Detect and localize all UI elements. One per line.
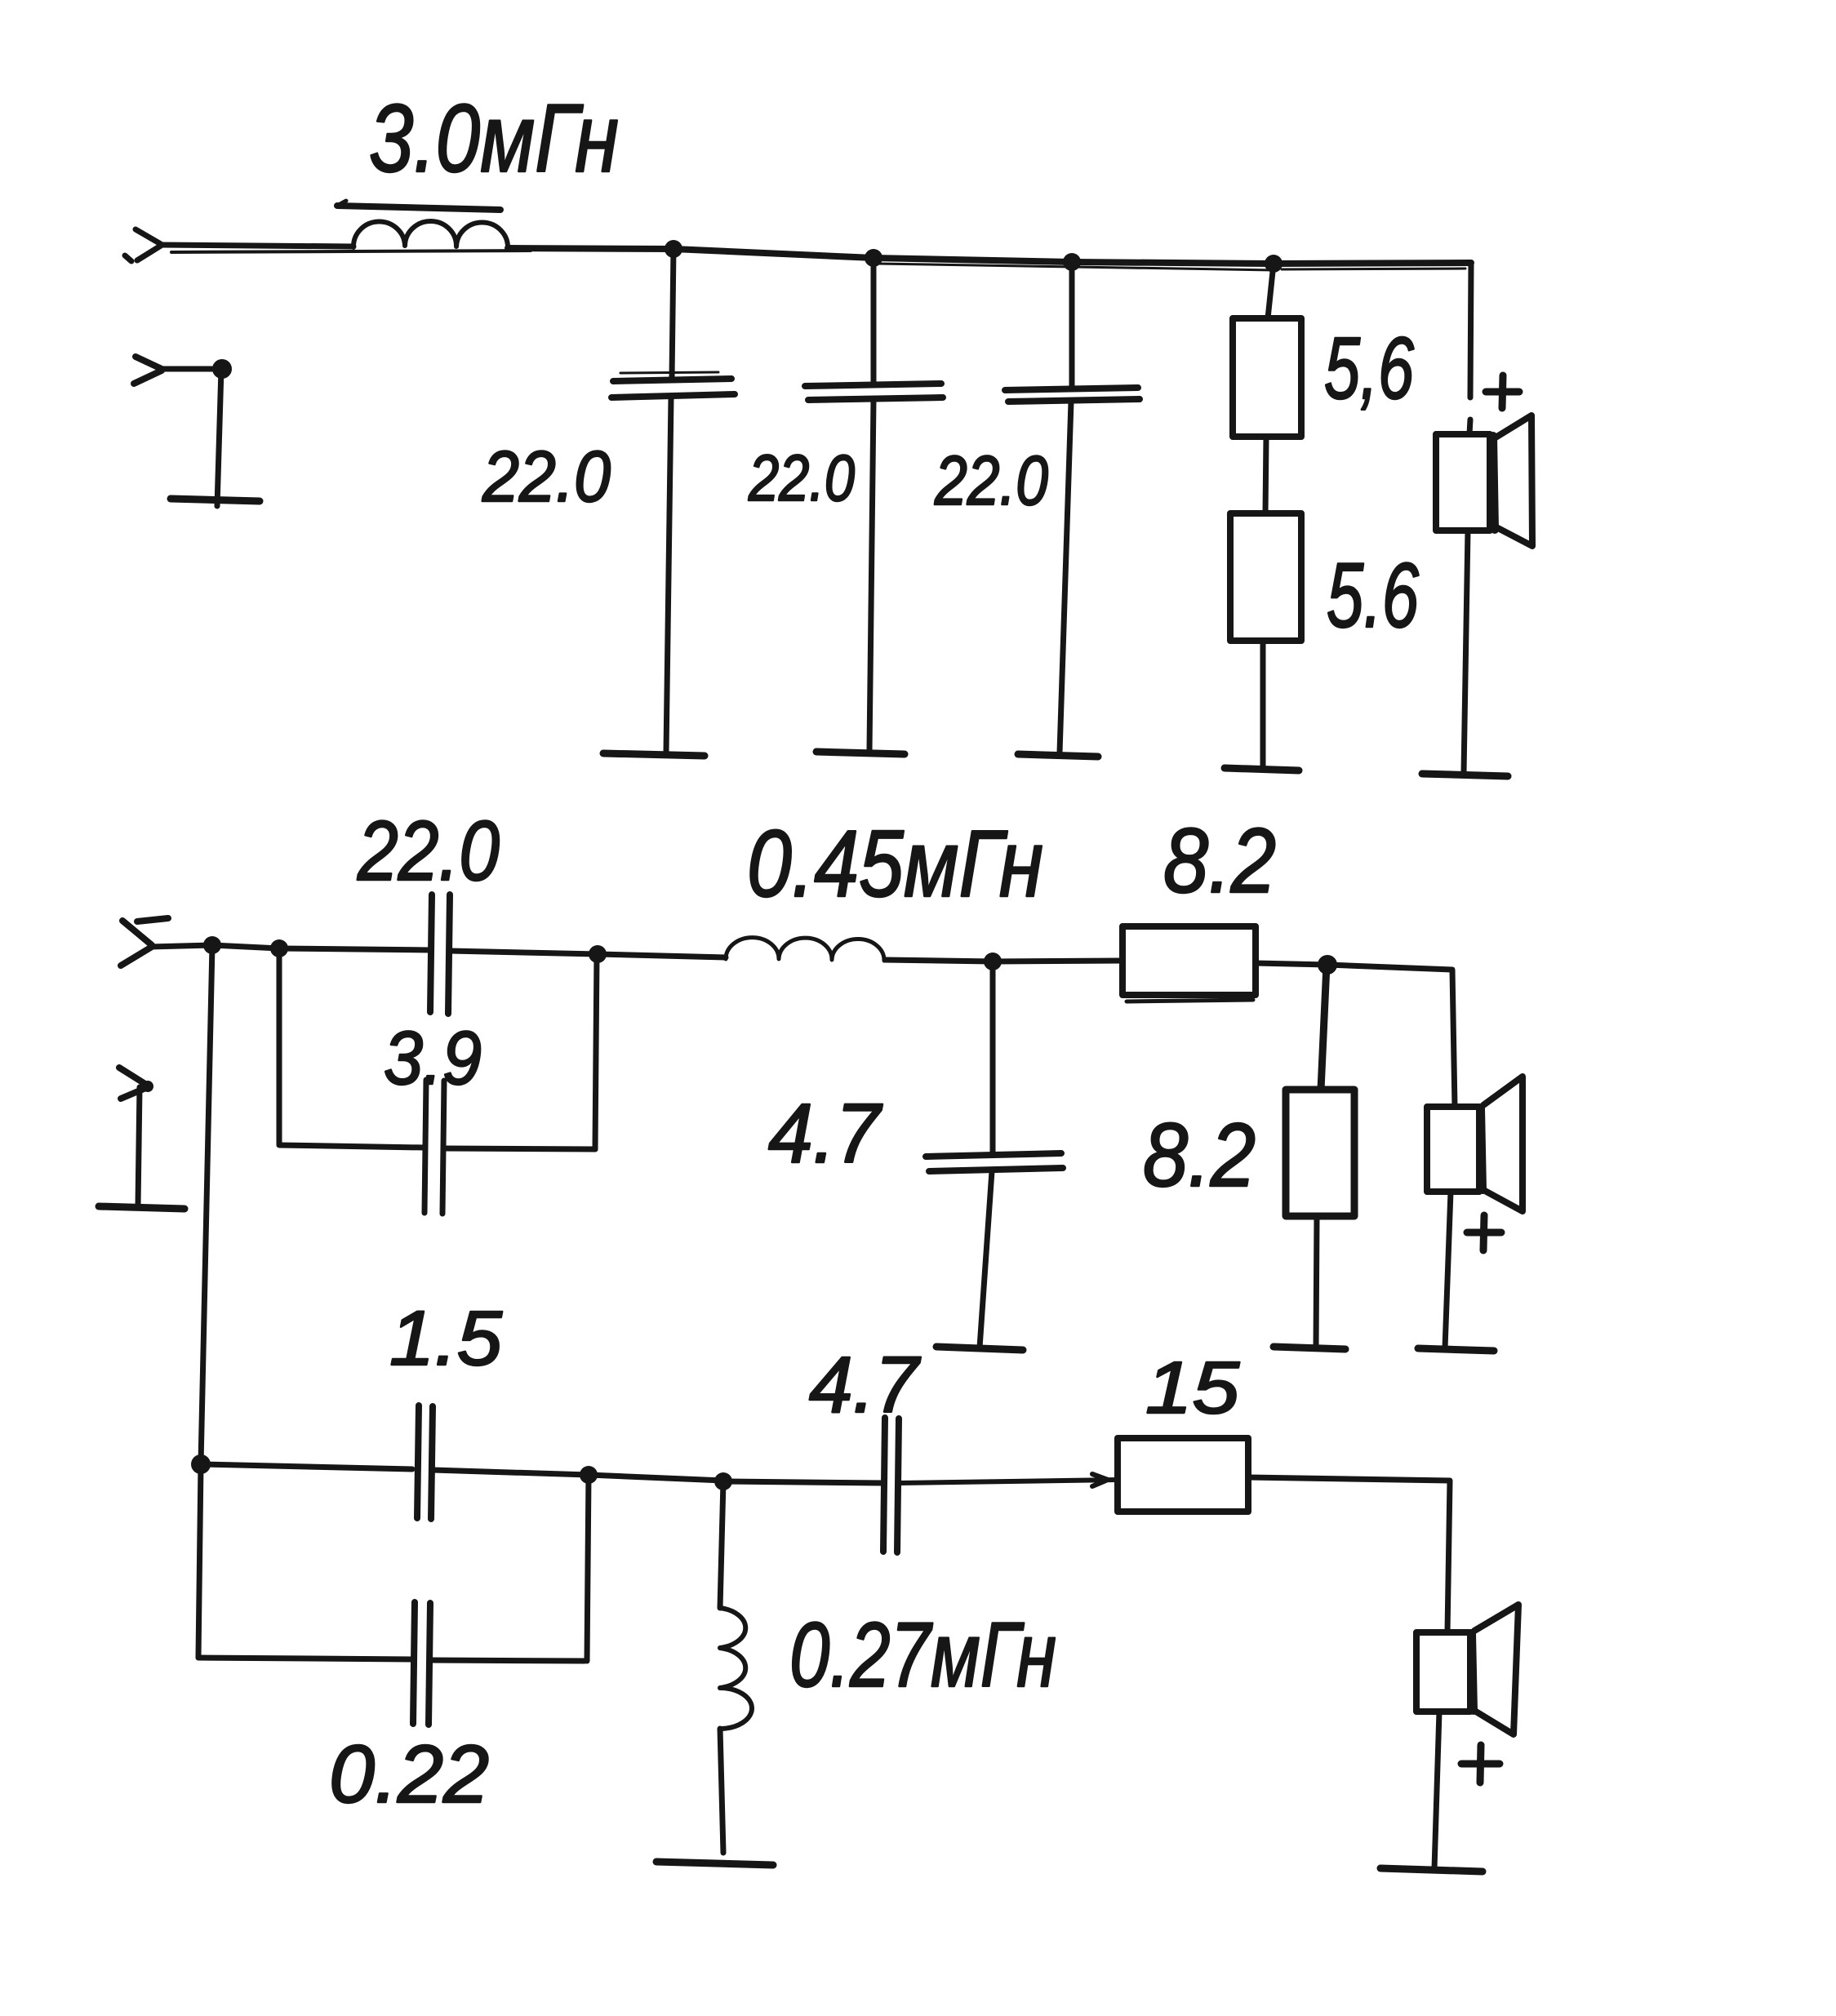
plus polarity mark for LS3 — [1461, 1745, 1500, 1783]
inductor L3 0.27mГн (vertical, 3 arcs) — [720, 1608, 752, 1729]
wire long branch node A down to node F (bottom section) — [201, 945, 212, 1463]
wire C4 to node C — [450, 951, 598, 954]
capacitor C2 bottom lead — [869, 400, 874, 750]
wire input to inductor L1 — [161, 245, 531, 252]
capacitor C2 22.0 shunt: top lead — [871, 258, 877, 382]
node dot IN2 — [212, 359, 232, 379]
svg-text:3.0мГн: 3.0мГн — [369, 85, 619, 193]
input terminal IN2 arrow (top section, - input) — [134, 357, 162, 384]
svg-text:4.7: 4.7 — [768, 1086, 883, 1180]
wire bypass loop bottom left segment — [279, 1145, 425, 1148]
wire bottom loop right leg (up to node G) — [587, 1475, 589, 1661]
plus polarity mark for LS1 — [1486, 375, 1519, 408]
svg-text:5,6: 5,6 — [1324, 318, 1415, 417]
wire bypass loop right leg (up to node C) — [595, 954, 597, 1149]
capacitor C6 4.7 shunt: top lead — [990, 961, 996, 1152]
ground for C6 — [936, 1347, 1023, 1350]
input terminal IN4 arrow (middle section, - input) — [119, 1068, 153, 1099]
ground for LS3 — [1380, 1868, 1483, 1872]
ground for C2 — [816, 752, 905, 754]
svg-text:3.9: 3.9 — [384, 1015, 482, 1100]
plus polarity mark for LS2 — [1467, 1215, 1501, 1250]
inductor L1 (3 arcs) — [353, 221, 508, 248]
node junction dot B (3.9 loop) — [270, 939, 288, 957]
wire R3 to node E — [1256, 963, 1327, 965]
wire node D to resistor R3 — [993, 961, 1122, 961]
wire corner down to speaker LS1 (with pen gap) — [1469, 263, 1471, 434]
wire top main line from L1 to speaker corner — [508, 248, 1471, 270]
capacitor C3 bottom lead — [1060, 402, 1071, 753]
input terminal IN3 arrow (middle section, + input) — [121, 918, 168, 966]
wire speaker LS1 to ground — [1464, 531, 1468, 773]
ground for IN2 — [171, 499, 260, 501]
svg-text:1.5: 1.5 — [389, 1295, 503, 1382]
inductor L2 0.45mГн (3 arcs) — [726, 938, 884, 961]
wire bottom loop lower-left segment — [198, 1658, 413, 1659]
capacitor C6 bottom lead — [980, 1171, 992, 1348]
wire between R1 and R2 — [1265, 437, 1266, 513]
wire IN2 to node — [162, 366, 222, 372]
ground for C3 — [1018, 754, 1098, 757]
svg-text:8.2: 8.2 — [1163, 810, 1276, 912]
wire node H to capacitor C8 — [723, 1481, 883, 1483]
wire IN3 to series cap C4 — [150, 945, 431, 950]
ground for R1/R2 chain — [1225, 768, 1299, 770]
capacitor C1 bottom lead — [666, 397, 671, 752]
node junction dot top-1 (cap C1) — [665, 240, 682, 258]
ground for IN4 — [99, 1206, 184, 1209]
wire C8 to resistor R5 with small flow arrowhead — [899, 1474, 1118, 1486]
wire L2 to node D — [885, 960, 993, 961]
wire C7 to node G — [433, 1470, 589, 1475]
resistor R2 5.6 (vertical box) — [1230, 513, 1301, 641]
capacitor C9 0.22 series plates (vertical) — [413, 1602, 430, 1725]
ground for LS2 — [1418, 1348, 1494, 1351]
wire IN4 down to ground — [138, 1087, 140, 1206]
node junction dot F — [191, 1454, 211, 1474]
speaker LS1 horn — [1496, 415, 1532, 546]
wire bypass loop bottom right segment — [444, 1148, 595, 1149]
node junction dot G — [580, 1466, 598, 1484]
resistor R4 8.2 shunt (vertical box) — [1286, 1090, 1354, 1216]
node junction dot top-2 (cap C2) — [865, 249, 882, 267]
ground for R4 — [1274, 1347, 1345, 1349]
wire R4 to ground — [1316, 1216, 1317, 1348]
svg-text:22.0: 22.0 — [934, 442, 1048, 520]
node junction dot H — [714, 1472, 732, 1490]
speaker LS2 (midrange): coil box — [1427, 1107, 1483, 1192]
capacitor C5 3.9 series plates (vertical) — [425, 1080, 444, 1214]
wire speaker LS3 to ground — [1434, 1712, 1439, 1869]
capacitor C1 plates — [611, 372, 735, 397]
capacitor C6 plates — [926, 1153, 1063, 1171]
wire bottom loop left leg (node F down) — [198, 1464, 201, 1657]
node junction dot top-3 (cap C3) — [1063, 253, 1081, 271]
speaker LS3 (tweeter): coil box — [1416, 1632, 1474, 1712]
svg-text:4.7: 4.7 — [809, 1340, 921, 1429]
svg-text:0.27мГн: 0.27мГн — [789, 1604, 1056, 1706]
node junction dot E — [1318, 955, 1337, 975]
speaker LS2 horn — [1483, 1077, 1523, 1211]
svg-text:15: 15 — [1145, 1348, 1240, 1429]
svg-text:22.0: 22.0 — [748, 442, 855, 514]
capacitor C7 1.5 series plates (vertical) — [417, 1405, 433, 1519]
wire bottom loop lower-right segment — [430, 1660, 585, 1661]
resistor R5 15 (horizontal box) — [1118, 1438, 1248, 1512]
capacitor C2 plates — [805, 384, 943, 400]
wire node E to speaker LS2 corner — [1327, 965, 1455, 1107]
wire R2 to ground — [1260, 641, 1266, 767]
resistor R1 5,6 (vertical box) — [1233, 318, 1301, 437]
capacitor C8 4.7 series plates (vertical) — [883, 1418, 899, 1552]
overline above inductor L1 with small left arrow tick — [337, 201, 500, 210]
wire node C to inductor L2 — [598, 954, 726, 957]
svg-text:0.45мГн: 0.45мГн — [747, 810, 1043, 917]
svg-text:8.2: 8.2 — [1143, 1105, 1256, 1206]
ground for LS1 — [1422, 774, 1508, 776]
capacitor C3 22.0 shunt: top lead — [1069, 262, 1075, 388]
node junction dot C — [589, 945, 607, 963]
wire node E down to resistor R4 — [1321, 965, 1327, 1090]
capacitor C4 22.0 series plates (vertical) — [430, 895, 450, 1014]
svg-text:5.6: 5.6 — [1327, 544, 1420, 646]
wire bottom main line F to C7 — [201, 1464, 412, 1469]
svg-text:22.0: 22.0 — [482, 436, 611, 517]
wire node H down to inductor L3 — [720, 1481, 723, 1608]
input terminal IN1 arrow (top section, + input) — [125, 229, 161, 261]
wire R5 to speaker LS3 corner — [1248, 1477, 1450, 1632]
wire IN2 node down to ground — [217, 369, 221, 506]
resistor R3 8.2 series (horizontal box) — [1122, 926, 1256, 1001]
wire node G to node H — [589, 1475, 723, 1481]
node junction dot A (long branch down) — [203, 936, 221, 954]
capacitor C1 22.0 shunt: top lead — [672, 249, 673, 378]
wire bypass loop left leg (node B down) — [277, 948, 282, 1144]
speaker LS1 (woofer): coil box — [1436, 434, 1495, 531]
node junction dot D — [984, 952, 1002, 970]
node junction dot top-4 (resistor chain) — [1265, 255, 1283, 273]
speaker LS3 horn — [1474, 1605, 1518, 1734]
svg-text:22.0: 22.0 — [357, 804, 500, 899]
ground for C1 — [603, 753, 705, 756]
svg-text:0.22: 0.22 — [329, 1729, 489, 1820]
wire L3 to ground — [720, 1729, 723, 1853]
wire node top-4 to resistor R1 — [1268, 264, 1274, 318]
capacitor C3 plates — [1005, 388, 1140, 402]
wire speaker LS2 to ground — [1445, 1192, 1451, 1348]
ground for L3 — [656, 1862, 773, 1865]
